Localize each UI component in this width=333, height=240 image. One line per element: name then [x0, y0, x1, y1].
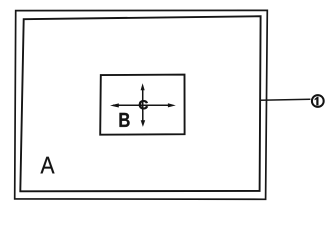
outer frame of region A [15, 10, 268, 199]
label A (Liberation Sans Regular outline) [41, 157, 55, 174]
inner frame of region A [20, 16, 260, 191]
callout digit 1 [315, 97, 319, 106]
crosshair horizontal wire [113, 104, 170, 106]
arrow left [110, 103, 119, 107]
callout circle [312, 95, 324, 107]
label C at crosshair centre (Liberation Sans Bold outline) [139, 100, 148, 109]
leader wire to callout 1 [260, 99, 311, 100]
arrow down [141, 120, 146, 127]
arrow up [141, 83, 145, 90]
crosshair vertical wire [142, 88, 144, 122]
box B [100, 75, 184, 135]
arrow right [168, 103, 176, 107]
label B (Liberation Sans Bold outline) [119, 113, 129, 127]
